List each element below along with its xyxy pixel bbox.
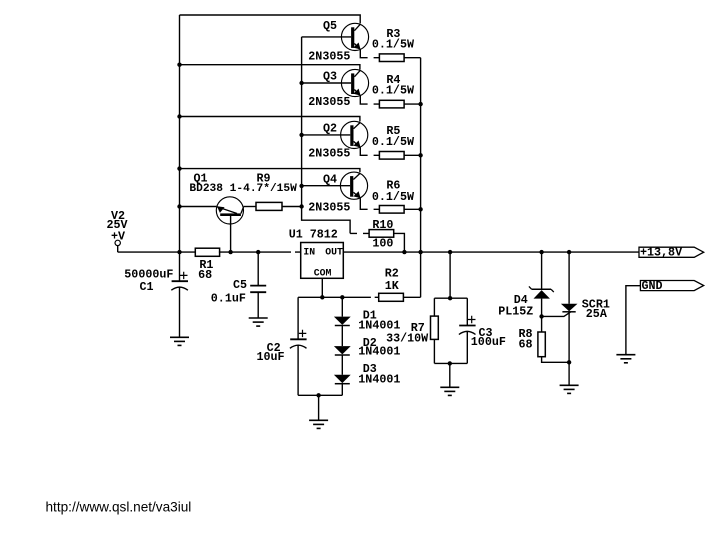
svg-text:0.1/5W: 0.1/5W (372, 190, 415, 204)
wire base Q3 (302, 82, 352, 84)
svg-text:+13,8V: +13,8V (640, 246, 682, 260)
svg-text:1K: 1K (385, 279, 400, 293)
svg-text:U1 7812: U1 7812 (289, 228, 338, 242)
diode D1 1N4001 (334, 317, 351, 326)
diode D3 1N4001 (334, 375, 351, 384)
node base rail / R9 (299, 204, 303, 208)
svg-text:68: 68 (519, 338, 533, 352)
svg-text:BD238 1-4.7*/15W: BD238 1-4.7*/15W (189, 183, 297, 195)
wire loop right upper (466, 298, 468, 325)
node main wire / R7 C3 (448, 250, 452, 254)
svg-text:33/10W: 33/10W (386, 331, 429, 345)
node left rail / Q4 collector (177, 166, 181, 170)
node SCR1 / R8 ground wire (567, 360, 571, 364)
ground SCR1/R8 (560, 385, 579, 393)
node base rail / Q3 base (299, 81, 303, 85)
transistor Q5 2N3055 (341, 23, 368, 50)
wire U1 OUT to +13,8V flag (343, 251, 639, 253)
ground GND terminal (616, 355, 635, 363)
node COM lead junction (320, 295, 324, 299)
node main wire / SCR1 (567, 250, 571, 254)
node left rail / main wire (177, 250, 181, 254)
wire D4 to gate node (541, 299, 543, 332)
svg-text:Q3: Q3 (323, 70, 337, 84)
svg-text:C5: C5 (233, 278, 247, 292)
node rail / main output wire (418, 250, 422, 254)
wire R6 to output rail (404, 208, 421, 210)
wire emitter Q2 (360, 147, 379, 155)
svg-text:0.1/5W: 0.1/5W (372, 135, 415, 149)
node rail / R4 (418, 102, 422, 106)
wire main to R7/C3 loop (449, 252, 451, 298)
wire emitter Q3 (360, 95, 379, 104)
wire R3 to output rail (404, 57, 421, 59)
wire Q1 base to main wire (230, 216, 232, 252)
capacitor C3 100uF (459, 316, 476, 364)
node main wire / D4 (539, 250, 543, 254)
node base rail / Q2 base (299, 133, 303, 137)
svg-text:R10: R10 (372, 218, 393, 232)
svg-text:100uF: 100uF (471, 335, 506, 349)
wire to ground (318, 395, 320, 420)
svg-text:2N3055: 2N3055 (308, 147, 350, 161)
wire input to R1 (118, 251, 196, 253)
wire loop left upper (433, 298, 435, 316)
svg-text:2N3055: 2N3055 (308, 49, 350, 63)
node main wire / C5 (256, 250, 260, 254)
ground R7/C3 (440, 387, 459, 395)
terminal +13,8V output flag (639, 246, 704, 260)
wire Q3 collector (180, 65, 360, 70)
svg-text:Q2: Q2 (323, 122, 337, 136)
resistor R2 (379, 293, 404, 301)
svg-text:1N4001: 1N4001 (358, 372, 400, 386)
transistor Q1 BD238 (PNP) (216, 197, 243, 224)
wire R4 to output rail (404, 103, 421, 105)
wire R9 to base rail (282, 206, 302, 208)
node left rail / Q2 collector (177, 114, 181, 118)
svg-text:Q5: Q5 (323, 19, 337, 33)
svg-text:25A: 25A (586, 307, 608, 321)
wire main to SCR1 (568, 252, 570, 304)
wire base rail (302, 37, 351, 234)
node rail / R5 (418, 153, 422, 157)
svg-text:100: 100 (372, 236, 393, 250)
wire gate to SCR1 (542, 312, 571, 317)
wire loop left lower (433, 339, 435, 363)
wire main to D4 (541, 252, 543, 289)
wire top collector rail (Q5) (180, 15, 361, 23)
svg-text:PL15Z: PL15Z (498, 305, 533, 319)
wire base Q5 (302, 36, 352, 38)
svg-text:IN: IN (303, 247, 315, 258)
resistor R9 (256, 202, 282, 210)
svg-text:2N3055: 2N3055 (308, 95, 350, 109)
wire Q2 collector (180, 117, 360, 122)
wire R5 to output rail (404, 154, 421, 156)
svg-text:1N4001: 1N4001 (358, 345, 400, 359)
wire SCR1 cathode down (568, 312, 570, 386)
wire R1 to U1 IN (219, 251, 301, 253)
svg-text:0.1/5W: 0.1/5W (372, 84, 415, 98)
svg-text:10uF: 10uF (257, 350, 285, 364)
node R10 / main output wire (402, 250, 406, 254)
node rail / R6 (418, 207, 422, 211)
ground C2/diodes (309, 420, 328, 428)
terminal GND flag (640, 279, 703, 293)
resistor R8 (538, 332, 545, 357)
node base rail / Q4 base (299, 184, 303, 188)
wire COM node (298, 296, 379, 298)
svg-text:0.1uF: 0.1uF (211, 292, 246, 306)
capacitor C1 50000uF (171, 252, 188, 337)
wire D2 to D3 (341, 355, 343, 375)
wire emitter-resistor output rail (420, 58, 422, 298)
ground C5 (249, 318, 268, 326)
node loop bottom / ground (448, 361, 452, 365)
wire to D1 (341, 297, 343, 316)
transistor Q2 2N3055 (341, 121, 368, 148)
thyristor SCR1 25A (561, 304, 578, 312)
resistor R4 0.1/5W (379, 100, 404, 108)
capacitor C2 10uF (290, 330, 307, 396)
resistor R7 33/10W (431, 316, 439, 339)
wire Q1 collector to R9 (244, 206, 256, 208)
diode D2 1N4001 (334, 346, 351, 355)
svg-text:COM: COM (314, 267, 332, 278)
node D4 / R8 / gate (539, 314, 543, 318)
node diode chain junction (340, 295, 344, 299)
wire loop bottom (434, 362, 467, 364)
wire R8 to ground node (542, 357, 570, 363)
svg-text:OUT: OUT (325, 247, 343, 258)
node bottom ground junction (316, 393, 320, 397)
resistor R6 0.1/5W (379, 206, 404, 214)
svg-text:GND: GND (642, 279, 663, 293)
resistor R5 0.1/5W (379, 152, 404, 160)
svg-text:0.1/5W: 0.1/5W (372, 37, 415, 51)
wire emitter Q4 (360, 198, 379, 209)
wire base Q4 (302, 185, 351, 187)
wire D1 to D2 (341, 326, 343, 347)
ground C1 (170, 337, 189, 345)
wire Q4 collector (180, 169, 360, 173)
wire R2 to output rail (403, 296, 420, 298)
wire base Q2 (302, 134, 351, 136)
svg-text:68: 68 (198, 268, 212, 282)
svg-text:+V: +V (111, 230, 125, 244)
transistor Q4 2N3055 (340, 172, 367, 199)
wire COM node to C2 (297, 297, 299, 339)
resistor R10 (369, 230, 394, 238)
node left rail / Q1 emitter (177, 204, 181, 208)
op-amp U1 7812 regulator box (301, 243, 344, 279)
svg-text:1N4001: 1N4001 (358, 318, 400, 332)
capacitor C5 0.1uF (250, 252, 266, 318)
node main wire / Q1 base (228, 250, 232, 254)
wire emitter Q5 (360, 49, 379, 57)
wire C2/diodes bottom (298, 394, 342, 396)
resistor R1 (195, 248, 219, 256)
wire Q1 emitter from left rail (180, 206, 217, 208)
svg-text:http://www.qsl.net/va3iul: http://www.qsl.net/va3iul (46, 500, 192, 515)
node left rail / Q3 collector (177, 62, 181, 66)
wire loop top (434, 297, 467, 299)
wire R10 to main output wire (394, 233, 405, 252)
wire U1 COM lead (321, 278, 323, 297)
svg-text:2N3055: 2N3055 (308, 201, 350, 215)
node loop top (448, 296, 452, 300)
wire GND flag to ground (626, 286, 641, 355)
svg-text:Q4: Q4 (323, 173, 337, 187)
diode D4 PL15Z zener (529, 286, 554, 298)
terminal V2 +V 25V input (115, 240, 120, 252)
transistor Q3 2N3055 (341, 69, 368, 96)
wire left supply rail (179, 15, 181, 252)
wire base rail to R10 (350, 232, 369, 234)
wire D3 to bottom node (341, 384, 343, 396)
svg-text:C1: C1 (140, 280, 154, 294)
resistor R3 0.1/5W (379, 54, 404, 62)
wire loop to ground (449, 363, 451, 387)
